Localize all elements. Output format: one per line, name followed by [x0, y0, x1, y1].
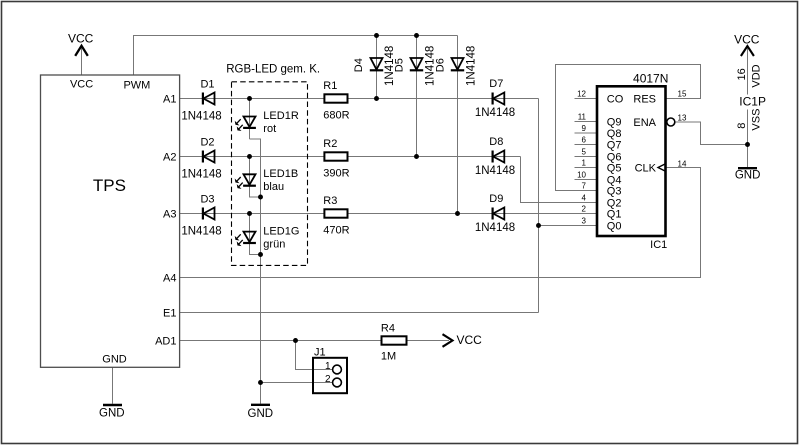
svg-text:Q3: Q3 — [607, 186, 622, 198]
node A3-LED junction — [247, 211, 252, 216]
svg-text:R1: R1 — [323, 80, 337, 92]
wire stub pin 10 Q4 — [575, 179, 598, 181]
svg-text:GND: GND — [735, 169, 761, 181]
wire Q0 — [539, 225, 598, 227]
wire stub pin 11 Q9 — [575, 121, 598, 123]
wire AD1 to R4 to VCC arrow — [180, 340, 449, 342]
svg-text:grün: grün — [263, 239, 285, 251]
svg-text:2: 2 — [325, 374, 331, 385]
power VCC arrow after R4 — [443, 334, 453, 347]
wire AD1 to J1 pin 1 — [296, 341, 334, 370]
node D5 top bus junction — [414, 33, 419, 38]
wire D8 down to Q2 — [521, 157, 598, 203]
svg-text:14: 14 — [678, 159, 687, 168]
node D4-A1 junction — [374, 96, 379, 101]
svg-text:4: 4 — [582, 194, 587, 203]
wire D4 vertical — [376, 36, 378, 99]
svg-text:GND: GND — [99, 408, 125, 420]
diode D5 — [410, 58, 423, 70]
svg-text:A1: A1 — [163, 94, 176, 106]
svg-text:D4: D4 — [353, 58, 365, 72]
diode D7 — [493, 93, 505, 105]
svg-text:D8: D8 — [489, 136, 503, 148]
diode D1 — [203, 93, 215, 105]
wire TPS GND stub — [112, 367, 114, 404]
CLK edge triangle — [658, 164, 666, 172]
svg-text:LED1R: LED1R — [263, 110, 299, 122]
svg-text:VCC: VCC — [70, 79, 93, 91]
svg-text:D3: D3 — [200, 193, 214, 205]
ground LED common GND — [251, 404, 270, 406]
svg-text:1N4148: 1N4148 — [475, 222, 515, 234]
wire LED1G anode and cathode jog — [250, 214, 261, 255]
svg-text:1N4148: 1N4148 — [181, 168, 221, 180]
svg-text:IC1P: IC1P — [739, 94, 766, 108]
LED LED1R — [235, 117, 256, 131]
svg-text:A4: A4 — [163, 273, 176, 285]
svg-text:CO: CO — [607, 94, 624, 106]
svg-text:LED1B: LED1B — [263, 168, 298, 180]
wire stub pin 5 Q6 — [575, 156, 598, 158]
node D5-A2 junction — [414, 154, 419, 159]
svg-text:blau: blau — [263, 181, 284, 193]
LED LED1B — [235, 174, 256, 188]
wire LED1B anode and cathode jog — [250, 157, 261, 198]
IC U1 4017N box — [597, 86, 666, 236]
connector J1 — [313, 358, 347, 393]
wire D5 vertical — [416, 36, 418, 157]
svg-text:VCC: VCC — [68, 32, 94, 46]
svg-text:A3: A3 — [163, 209, 176, 221]
svg-text:AD1: AD1 — [155, 336, 176, 348]
svg-text:VCC: VCC — [734, 32, 760, 46]
resistor R1 680R — [324, 94, 347, 102]
svg-text:6: 6 — [582, 136, 587, 145]
wire A4 to CLK — [180, 168, 701, 278]
svg-text:7: 7 — [582, 182, 587, 191]
svg-text:D6: D6 — [435, 58, 447, 72]
svg-text:16: 16 — [736, 68, 748, 80]
svg-text:1N4148: 1N4148 — [475, 165, 515, 177]
svg-text:VSS: VSS — [751, 109, 763, 131]
svg-text:1: 1 — [582, 159, 587, 168]
svg-text:VCC: VCC — [457, 333, 483, 347]
wire E1 — [180, 312, 539, 314]
svg-text:680R: 680R — [323, 109, 349, 121]
svg-text:2: 2 — [582, 205, 587, 214]
wire stub pin 9 Q8 — [575, 132, 598, 134]
diode D3 — [203, 208, 215, 220]
node D6-A3 junction — [455, 211, 460, 216]
svg-text:PWM: PWM — [123, 80, 150, 92]
svg-text:R2: R2 — [323, 138, 337, 150]
svg-text:D1: D1 — [200, 78, 214, 90]
svg-text:3: 3 — [582, 217, 587, 226]
svg-text:VDD: VDD — [751, 64, 763, 87]
LED LED1G — [235, 232, 256, 246]
svg-text:R3: R3 — [323, 195, 337, 207]
svg-text:1N4148: 1N4148 — [181, 225, 221, 237]
wire A3 net to Q1 — [180, 213, 597, 215]
svg-text:D7: D7 — [489, 78, 503, 90]
wire J1 pin 2 to LED common — [261, 382, 334, 384]
node Q0 junction — [536, 223, 541, 228]
ground IC1P GND — [738, 167, 757, 169]
svg-text:1N4148: 1N4148 — [475, 107, 515, 119]
wire A1 net through D1 R1 D7 — [180, 98, 539, 100]
svg-text:LED1G: LED1G — [263, 226, 299, 238]
node VSS junction — [745, 142, 750, 147]
node A1-LED junction — [247, 96, 252, 101]
svg-text:GND: GND — [248, 408, 274, 420]
diode D4 — [370, 58, 383, 70]
svg-text:12: 12 — [577, 90, 586, 99]
node LED1B cathode junction — [258, 195, 263, 200]
svg-text:Q0: Q0 — [607, 221, 622, 233]
svg-text:J1: J1 — [314, 347, 326, 359]
svg-text:Q9: Q9 — [607, 117, 622, 129]
block TPS U-block — [41, 75, 180, 367]
svg-text:470R: 470R — [323, 224, 349, 236]
wire VCC stub top-left — [81, 46, 83, 75]
svg-text:CLK: CLK — [635, 163, 657, 175]
dashed box RGB-LED — [232, 82, 308, 266]
svg-text:RES: RES — [633, 94, 656, 106]
svg-text:4017N: 4017N — [633, 71, 668, 85]
node LED1G cathode junction — [258, 252, 263, 257]
svg-text:8: 8 — [736, 123, 748, 129]
wire IC1P VDD line — [747, 47, 749, 95]
svg-text:A2: A2 — [163, 152, 176, 164]
svg-text:GND: GND — [102, 353, 127, 365]
svg-text:Q7: Q7 — [607, 140, 622, 152]
diode D9 — [493, 208, 505, 220]
svg-text:1: 1 — [325, 361, 331, 372]
wire A2 net through D2 R2 D8 — [180, 156, 521, 158]
node AD1-J1 junction — [293, 338, 298, 343]
node A2-LED junction — [247, 154, 252, 159]
svg-text:15: 15 — [678, 90, 687, 99]
wire LED common cathode — [250, 139, 261, 404]
wire LED1R anode — [249, 99, 251, 140]
svg-text:Q8: Q8 — [607, 128, 622, 140]
wire RES to Q3 loop — [556, 65, 701, 191]
svg-text:IC1: IC1 — [650, 239, 667, 251]
svg-text:rot: rot — [263, 123, 276, 135]
svg-text:1N4148: 1N4148 — [181, 110, 221, 122]
wire stub pin 1 Q5 — [575, 167, 598, 169]
wire D7 to Q0/E1 vertical — [538, 99, 540, 313]
svg-text:ENA: ENA — [633, 117, 656, 129]
svg-text:TPS: TPS — [93, 176, 126, 195]
svg-text:D5: D5 — [394, 58, 406, 72]
svg-text:10: 10 — [577, 171, 586, 180]
svg-text:Q5: Q5 — [607, 163, 622, 175]
svg-text:5: 5 — [582, 148, 587, 157]
svg-text:9: 9 — [582, 124, 587, 133]
svg-text:390R: 390R — [323, 167, 349, 179]
wire ENA pin 13 to VSS — [675, 122, 748, 145]
svg-text:R4: R4 — [381, 322, 395, 334]
svg-text:E1: E1 — [163, 308, 176, 320]
node D4 top bus junction — [374, 33, 379, 38]
svg-text:13: 13 — [678, 113, 687, 122]
ENA inversion bubble — [667, 118, 675, 126]
wire IC1P VSS line — [747, 110, 749, 168]
svg-text:D9: D9 — [489, 193, 503, 205]
svg-text:D2: D2 — [200, 136, 214, 148]
diode D6 — [451, 58, 464, 70]
svg-text:1M: 1M — [381, 351, 396, 363]
wire D6 vertical — [457, 36, 459, 214]
svg-text:11: 11 — [578, 113, 587, 122]
svg-text:RGB-LED gem. K.: RGB-LED gem. K. — [226, 64, 320, 76]
svg-text:Q1: Q1 — [607, 209, 622, 221]
wire PWM to top bus — [134, 36, 458, 76]
svg-text:1N4148: 1N4148 — [466, 46, 478, 86]
diode D2 — [203, 151, 215, 163]
resistor R2 390R — [324, 152, 347, 160]
diode D8 — [493, 151, 505, 163]
wire stub pin 6 Q7 — [575, 144, 598, 146]
resistor R4 1M — [382, 336, 407, 344]
wire stub pin 12 CO — [575, 98, 598, 100]
ground TPS GND — [103, 404, 122, 406]
node J1 pin2 junction — [258, 380, 263, 385]
resistor R3 470R — [324, 209, 347, 217]
